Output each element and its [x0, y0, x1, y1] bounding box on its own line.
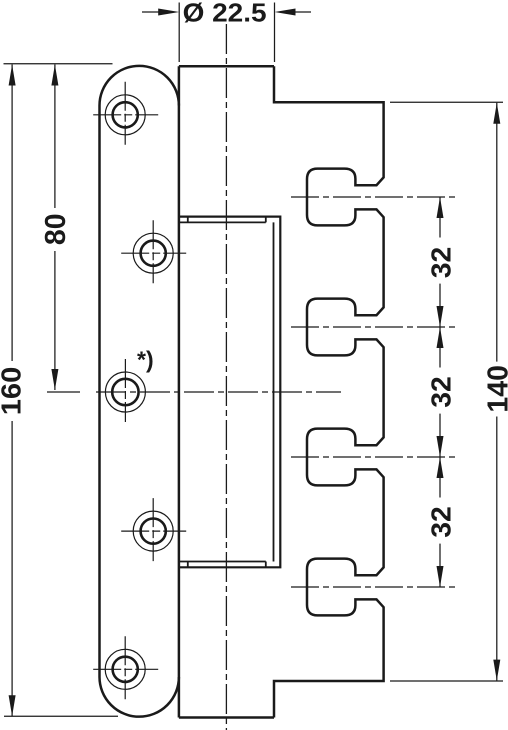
svg-text:32: 32 [425, 376, 456, 408]
svg-text:32: 32 [425, 247, 456, 279]
dimension 160 [0, 64, 118, 717]
insert plate outer edges [179, 217, 280, 568]
dimension 32 (lug2-lug3) [425, 327, 456, 457]
dimension 140 [390, 102, 508, 681]
hinge bar top edge and bottom edge (wire) [179, 66, 274, 717]
svg-text:140: 140 [482, 365, 508, 413]
svg-text:*): *) [137, 347, 154, 373]
svg-text:80: 80 [40, 213, 72, 245]
bar vertical centerline [225, 24, 227, 730]
svg-text:160: 160 [0, 367, 26, 416]
screw hole 5 [93, 636, 158, 699]
dimension Ø 22.5 [142, 0, 311, 62]
screw hole 4 [121, 498, 186, 561]
screw hole 2 [121, 220, 186, 283]
dimension 80 [40, 65, 80, 393]
hinge axis centerline [96, 391, 341, 393]
hinge pin hole 3 [105, 359, 145, 422]
hinge bar left edge (wire) [178, 66, 181, 717]
lug 4 centerline [291, 586, 455, 588]
svg-text:Ø 22.5: Ø 22.5 [183, 0, 267, 28]
insert plate inner offset lines [179, 217, 274, 568]
lug 3 centerline [291, 456, 455, 458]
frame part outline with 4 lugs [274, 66, 384, 717]
lug 2 centerline [291, 326, 455, 328]
dimension 32 (lug1-lug2) [425, 197, 456, 327]
screw hole 1 [93, 82, 158, 145]
svg-text:32: 32 [425, 506, 456, 538]
lug 1 centerline [291, 196, 455, 198]
dimension 32 (lug3-lug4) [425, 457, 456, 587]
door leaf plate (stadium outline) [100, 66, 179, 717]
